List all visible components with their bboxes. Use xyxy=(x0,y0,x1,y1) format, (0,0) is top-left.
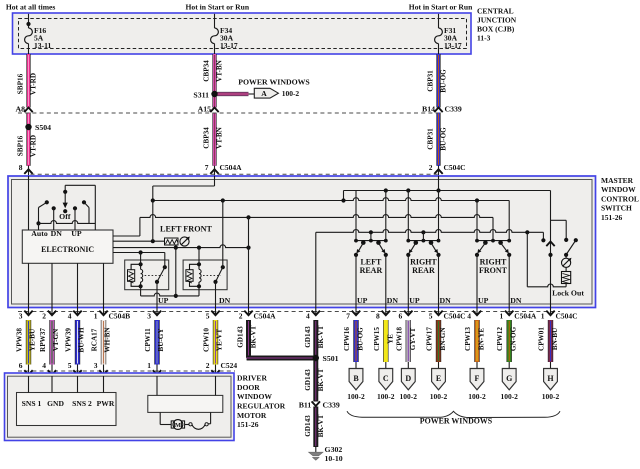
wire left rear center xyxy=(370,232,372,240)
wire VT-BN from A15 to pin 7 xyxy=(212,113,216,166)
wire RCA17 WH-BN xyxy=(101,320,106,365)
svg-text:7: 7 xyxy=(205,163,209,172)
svg-text:WINDOW: WINDOW xyxy=(237,392,272,401)
svg-text:10-10: 10-10 xyxy=(325,454,343,463)
off switch up contact xyxy=(73,206,77,230)
svg-text:BK-VT: BK-VT xyxy=(317,414,325,437)
wire GD143 pin2 elbow to S501 xyxy=(247,320,314,358)
svg-text:D: D xyxy=(405,374,411,383)
off switch common arm xyxy=(63,185,68,213)
svg-text:BK-VT: BK-VT xyxy=(250,325,258,348)
svg-text:SBP16: SBP16 xyxy=(17,73,25,94)
svg-text:Hot in Start or Run: Hot in Start or Run xyxy=(186,3,250,12)
svg-text:C504A: C504A xyxy=(514,312,537,321)
label C504C top xyxy=(444,163,466,172)
svg-text:C: C xyxy=(383,374,389,383)
label BK-VT d xyxy=(317,414,325,437)
window motor icon xyxy=(180,237,190,247)
svg-text:SNS 1: SNS 1 xyxy=(22,399,42,408)
label DN left rear xyxy=(387,296,399,305)
wire right rear dn post feed from pin2 xyxy=(438,176,440,241)
label ELECTRONIC xyxy=(41,245,94,254)
svg-text:VPW39: VPW39 xyxy=(64,328,72,352)
svg-text:VT-RD: VT-RD xyxy=(30,135,38,157)
svg-text:VT-BN: VT-BN xyxy=(216,126,224,149)
pin 2 C504B xyxy=(42,308,56,321)
svg-text:13-17: 13-17 xyxy=(220,41,238,50)
svg-text:H: H xyxy=(547,374,554,383)
label CPW11 xyxy=(144,328,152,352)
svg-text:2: 2 xyxy=(239,312,243,321)
wire relay1 pivot feed xyxy=(164,253,166,268)
off switch dn contact xyxy=(52,206,56,230)
lockout resistor xyxy=(562,267,571,286)
svg-text:YE-BU: YE-BU xyxy=(28,328,36,351)
pin 7 C504C xyxy=(346,308,360,321)
label VPW38 xyxy=(15,328,23,352)
connector F xyxy=(468,362,486,401)
wire relay2 coil feed xyxy=(198,248,200,265)
svg-text:A15: A15 xyxy=(198,105,212,114)
svg-text:GD143: GD143 xyxy=(304,369,312,391)
relay K2 left front down xyxy=(183,260,227,290)
label YE-BU xyxy=(28,328,36,351)
svg-text:S311: S311 xyxy=(193,90,209,99)
label UP right rear xyxy=(409,296,420,305)
svg-text:7: 7 xyxy=(346,312,350,321)
label RIGHT REAR xyxy=(410,258,437,276)
pin 3 C524 xyxy=(94,361,108,377)
svg-text:YE-VT: YE-VT xyxy=(215,329,223,352)
svg-text:C504A: C504A xyxy=(220,163,243,172)
label SNS1 GND SNS2 PWR xyxy=(22,399,115,408)
off switch right lever xyxy=(82,200,89,223)
label GD143 c xyxy=(304,369,312,391)
connector G xyxy=(500,362,518,401)
svg-text:C339: C339 xyxy=(445,105,462,114)
wire motor feed 1 xyxy=(156,376,158,395)
wire auto into electronic xyxy=(38,223,40,230)
svg-text:A: A xyxy=(261,89,267,98)
label C339 top xyxy=(445,105,462,114)
label B14 xyxy=(422,105,435,114)
connector dashed line C504 xyxy=(18,311,560,313)
wire electronic pwr xyxy=(103,263,105,308)
pin 3 C504A xyxy=(147,308,161,321)
label SBP16 upper xyxy=(17,73,25,94)
svg-text:CPW16: CPW16 xyxy=(343,327,351,351)
pin 8 C504C xyxy=(376,308,390,321)
svg-text:BU-OG: BU-OG xyxy=(440,127,448,151)
label YE xyxy=(386,334,394,344)
svg-text:CPW18: CPW18 xyxy=(395,327,403,351)
label UP right front xyxy=(478,296,489,305)
ground G302 xyxy=(309,447,323,460)
svg-text:4: 4 xyxy=(306,312,310,321)
svg-text:REGULATOR: REGULATOR xyxy=(237,402,286,411)
label BU-WH xyxy=(77,327,85,353)
wire GD143 B11 to G302 xyxy=(313,407,318,448)
svg-text:C504A: C504A xyxy=(254,312,277,321)
svg-text:BK-VT: BK-VT xyxy=(317,368,325,391)
wire sns1 in xyxy=(28,376,30,393)
lockout plug arrow xyxy=(546,242,554,247)
svg-text:13-17: 13-17 xyxy=(444,41,462,50)
svg-text:Auto: Auto xyxy=(31,229,48,238)
pin 6 C524 xyxy=(19,361,33,377)
pin 4 C504B xyxy=(68,308,82,321)
wire pwr in xyxy=(103,376,105,393)
master window control switch box outline xyxy=(8,176,596,308)
label BU-OG xyxy=(357,327,365,351)
label Off xyxy=(59,212,71,221)
svg-text:BN-BU: BN-BU xyxy=(551,327,559,350)
fuse F31 30A xyxy=(435,14,443,54)
svg-text:RCA17: RCA17 xyxy=(90,328,98,351)
connector dashed line C504 top xyxy=(31,173,439,175)
svg-text:CPW11: CPW11 xyxy=(144,328,152,352)
svg-text:8: 8 xyxy=(19,163,23,172)
label DN left front xyxy=(219,296,231,305)
wire lockout jog xyxy=(551,219,567,221)
svg-text:PWR: PWR xyxy=(97,399,115,408)
wire lockout main from L1 to pin1 xyxy=(548,191,552,309)
svg-text:FRONT: FRONT xyxy=(479,266,508,275)
svg-text:DOOR: DOOR xyxy=(237,383,260,392)
svg-text:C504C: C504C xyxy=(444,163,466,172)
svg-text:4: 4 xyxy=(42,361,46,370)
wire VT-BN S311 to connector A xyxy=(217,92,255,96)
wire pin 8 to electronic module xyxy=(28,176,30,230)
connector A15 arrow xyxy=(210,108,218,113)
svg-text:RIGHT: RIGHT xyxy=(410,258,437,267)
connector B xyxy=(347,362,365,401)
wire sns2 in xyxy=(77,376,79,393)
lockout motor symbol xyxy=(562,255,572,268)
label BN-GN xyxy=(439,327,447,351)
pin 1 C504B xyxy=(94,308,130,321)
svg-text:DN: DN xyxy=(440,296,452,305)
svg-text:Hot in Start or Run: Hot in Start or Run xyxy=(409,3,473,12)
svg-text:LEFT FRONT: LEFT FRONT xyxy=(160,225,212,234)
lockout return wire xyxy=(527,232,566,286)
svg-text:VT-BN: VT-BN xyxy=(216,59,224,82)
svg-text:REAR: REAR xyxy=(360,266,383,275)
svg-text:CBP31: CBP31 xyxy=(427,128,435,150)
svg-text:VPW38: VPW38 xyxy=(15,328,23,352)
pin 1 C504A b xyxy=(499,308,536,321)
svg-text:SWITCH: SWITCH xyxy=(601,204,632,213)
fuse F16 5A xyxy=(25,14,33,54)
svg-text:5: 5 xyxy=(429,312,433,321)
connector A symbol xyxy=(254,88,278,98)
label BK-VT c xyxy=(317,368,325,391)
svg-text:A8: A8 xyxy=(15,105,25,114)
wire CPW12 GN-OG xyxy=(507,320,512,362)
svg-text:JUNCTION: JUNCTION xyxy=(477,16,517,25)
off switch auto lever xyxy=(36,200,49,225)
label 100-2 connector A xyxy=(282,89,300,98)
svg-text:Lock Out: Lock Out xyxy=(552,289,584,298)
label CBP31 lower xyxy=(427,128,435,150)
wire BU-OG from F31 to B14 xyxy=(436,54,440,108)
svg-text:M: M xyxy=(175,422,181,429)
label CPW01 xyxy=(538,327,546,351)
svg-text:CBP34: CBP34 xyxy=(203,127,211,149)
svg-text:POWER WINDOWS: POWER WINDOWS xyxy=(238,78,310,87)
svg-text:BK-VT: BK-VT xyxy=(317,325,325,348)
label G302 xyxy=(325,445,343,463)
pin 2 arrow into master switch xyxy=(434,166,442,177)
bus L5 ground xyxy=(316,230,546,309)
svg-text:8: 8 xyxy=(376,312,380,321)
splice S501 xyxy=(313,355,319,361)
svg-text:C504C: C504C xyxy=(444,312,466,321)
wire GD143 S501 to B11 xyxy=(313,358,318,402)
svg-text:151-26: 151-26 xyxy=(237,420,259,429)
wire CPW13 BN-YE xyxy=(474,320,479,362)
svg-text:UP: UP xyxy=(478,296,489,305)
wire pin 7 jog xyxy=(153,176,215,201)
svg-text:100-2: 100-2 xyxy=(500,392,518,401)
wire relay2 lever to pin 5 xyxy=(215,282,217,308)
splice S504 xyxy=(25,124,31,130)
svg-text:CPW13: CPW13 xyxy=(464,327,472,351)
circuit breaker icon xyxy=(165,238,179,245)
label GD143 b xyxy=(304,326,312,348)
svg-text:B: B xyxy=(353,374,359,383)
svg-text:UP: UP xyxy=(409,296,420,305)
svg-text:LEFT: LEFT xyxy=(360,258,382,267)
motor M symbol xyxy=(160,412,210,429)
svg-text:RPW37: RPW37 xyxy=(39,328,47,352)
svg-text:6: 6 xyxy=(399,312,403,321)
label CBP34 upper xyxy=(203,60,211,82)
wire RPW37 VT-GN xyxy=(49,320,54,365)
svg-text:2: 2 xyxy=(429,163,433,172)
wire electronic gnd xyxy=(51,263,53,308)
wire VT-RD from F16 to A8 xyxy=(26,54,30,108)
sensor block xyxy=(17,393,117,426)
pin 1 C524 xyxy=(147,361,161,377)
svg-text:100-2: 100-2 xyxy=(430,392,448,401)
connector H xyxy=(542,362,560,401)
svg-text:GD143: GD143 xyxy=(304,326,312,348)
pin 4 C524 xyxy=(42,361,56,377)
svg-text:DN: DN xyxy=(510,296,522,305)
wire CPW01 BN-BU xyxy=(548,320,553,362)
svg-text:100-2: 100-2 xyxy=(377,392,395,401)
wire VT-BN from F34 to S311 xyxy=(212,54,216,94)
svg-text:C504B: C504B xyxy=(109,312,131,321)
pin 3 C504B xyxy=(19,308,33,321)
wire right front dn post xyxy=(508,201,510,241)
wire relay1 coil feed xyxy=(140,253,142,265)
svg-text:BU-GY: BU-GY xyxy=(157,328,165,352)
svg-text:6: 6 xyxy=(19,361,23,370)
svg-text:SNS 2: SNS 2 xyxy=(72,399,92,408)
bus L3 from electronic xyxy=(113,215,493,236)
label S501 xyxy=(323,354,339,363)
motor block xyxy=(148,395,223,412)
pin 5 C504A xyxy=(206,308,220,321)
wire VT-RD from S504 to pin 8 xyxy=(26,127,30,166)
svg-text:GN-OG: GN-OG xyxy=(510,326,518,351)
svg-text:BOX (CJB): BOX (CJB) xyxy=(477,25,515,34)
svg-text:CBP31: CBP31 xyxy=(427,70,435,92)
pin 4 C504A b xyxy=(467,308,481,321)
label master window control switch xyxy=(601,176,639,222)
svg-text:3: 3 xyxy=(19,312,23,321)
wire GD143 drop from L3 xyxy=(248,217,250,308)
svg-text:POWER WINDOWS: POWER WINDOWS xyxy=(420,416,493,425)
svg-text:CENTRAL: CENTRAL xyxy=(477,7,514,16)
label LEFT REAR xyxy=(360,258,383,276)
connector B14 arrow xyxy=(434,108,442,113)
label fuse F34 xyxy=(220,26,238,50)
label SBP16 lower xyxy=(17,135,25,156)
wire electronic sns1 xyxy=(28,263,30,308)
wire right rear center xyxy=(422,232,424,240)
bus L2 xyxy=(151,198,510,203)
wire CPW18 GY-VT xyxy=(406,320,411,362)
svg-text:100-2: 100-2 xyxy=(468,392,486,401)
label CPW10 xyxy=(202,328,210,352)
wire right front up post xyxy=(476,201,478,241)
wire BU-OG from B14 to pin 2 xyxy=(436,113,440,166)
pin 2 C524 xyxy=(206,361,238,377)
svg-text:F: F xyxy=(475,374,480,383)
label DN right rear xyxy=(440,296,452,305)
label hot at all times xyxy=(6,3,56,12)
svg-text:1: 1 xyxy=(499,312,503,321)
label UP left rear xyxy=(357,296,368,305)
pin 6 C504C xyxy=(399,308,413,321)
wire VT-RD from A8 to S504 xyxy=(26,113,30,128)
label BU-OG upper xyxy=(440,69,448,93)
pin 4 C504A xyxy=(306,308,320,321)
svg-text:CPW15: CPW15 xyxy=(373,327,381,351)
label hot in start or run 1 xyxy=(186,3,250,12)
svg-text:CPW01: CPW01 xyxy=(538,327,546,351)
connector dashed line C524 xyxy=(18,370,235,372)
label CBP31 upper xyxy=(427,70,435,92)
pin 1 C504C b xyxy=(541,308,578,321)
wire CPW16 BU-OG xyxy=(353,320,358,362)
svg-text:G: G xyxy=(506,374,512,383)
wire L4 to lockout contact xyxy=(564,220,568,242)
svg-text:ELECTRONIC: ELECTRONIC xyxy=(41,245,94,254)
pin 5 C504C xyxy=(429,308,466,321)
svg-text:GY-VT: GY-VT xyxy=(409,328,417,351)
switch right front xyxy=(475,239,511,308)
wire gnd in xyxy=(51,376,53,393)
svg-text:VT-RD: VT-RD xyxy=(30,73,38,95)
label CBP34 lower xyxy=(203,127,211,149)
label A15 xyxy=(198,105,212,114)
svg-text:3: 3 xyxy=(94,361,98,370)
svg-text:UP: UP xyxy=(357,296,368,305)
label CPW17 xyxy=(426,327,434,351)
svg-text:B14: B14 xyxy=(422,105,435,114)
connector C xyxy=(377,362,395,401)
svg-text:E: E xyxy=(436,374,441,383)
wire VPW39 BU-WH xyxy=(75,320,80,365)
svg-text:BU-OG: BU-OG xyxy=(357,327,365,351)
wire motor feed 2 xyxy=(215,376,217,395)
lockout lever xyxy=(564,238,578,257)
svg-text:YE: YE xyxy=(386,334,394,344)
label GD143 d xyxy=(304,415,312,437)
pin 5 C524 xyxy=(68,361,82,377)
label pin 2 xyxy=(429,163,433,172)
svg-text:5: 5 xyxy=(68,361,72,370)
svg-text:Off: Off xyxy=(59,212,71,221)
pin 8 arrow into master switch xyxy=(24,166,32,177)
label BU-GY xyxy=(157,328,165,352)
svg-text:C339: C339 xyxy=(323,401,340,410)
label VT-BN upper xyxy=(216,59,224,82)
power windows brace xyxy=(347,411,560,417)
wire relay1 coil to bus L6 xyxy=(140,286,142,296)
label B11 xyxy=(299,401,312,410)
label S504 xyxy=(35,123,51,132)
svg-text:3: 3 xyxy=(147,312,151,321)
svg-text:1: 1 xyxy=(147,361,151,370)
label A8 xyxy=(15,105,25,114)
label VT-BN lower xyxy=(216,126,224,149)
wire electronic to relay coil and pivot xyxy=(113,250,165,254)
splice S311 xyxy=(211,91,217,97)
label hot in start or run 2 xyxy=(409,3,473,12)
label CPW12 xyxy=(496,327,504,351)
label VT-RD upper xyxy=(30,73,38,95)
label YE-VT xyxy=(215,329,223,352)
wire GD143 pin4 to S501 xyxy=(313,320,318,358)
svg-text:CONTROL: CONTROL xyxy=(601,194,639,203)
label BU-OG lower xyxy=(440,127,448,151)
label CPW13 xyxy=(464,327,472,351)
label Lock Out xyxy=(552,289,584,298)
svg-text:2: 2 xyxy=(42,312,46,321)
connector dashed line C339 xyxy=(18,112,439,114)
svg-text:4: 4 xyxy=(68,312,72,321)
svg-text:100-2: 100-2 xyxy=(282,89,300,98)
svg-text:1: 1 xyxy=(94,312,98,321)
electronic module box xyxy=(22,230,113,263)
label UP left front xyxy=(158,296,169,305)
svg-text:MOTOR: MOTOR xyxy=(237,411,267,420)
svg-text:100-2: 100-2 xyxy=(542,392,560,401)
label BN-YE xyxy=(478,328,486,351)
svg-text:SBP16: SBP16 xyxy=(17,135,25,156)
label RCA17 xyxy=(90,328,98,351)
pin 2 C504A xyxy=(239,308,276,321)
svg-text:100-2: 100-2 xyxy=(347,392,365,401)
wire VPW38 YE-BU xyxy=(26,320,31,365)
svg-text:151-26: 151-26 xyxy=(601,213,622,222)
wire electronic sns2 xyxy=(77,263,79,308)
label pin 7 xyxy=(205,163,209,172)
connector D xyxy=(400,362,418,401)
label GD143 a xyxy=(237,326,245,348)
connector B11 C339 arrow xyxy=(312,401,320,406)
label C504A top xyxy=(220,163,243,172)
relay K1 left front up xyxy=(125,260,169,290)
label CJB xyxy=(477,7,517,43)
label auto dn up xyxy=(31,229,82,238)
label BN-BU xyxy=(551,327,559,350)
